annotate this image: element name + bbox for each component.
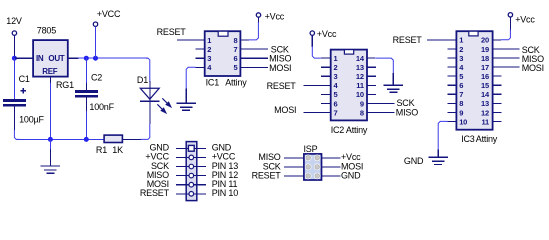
wire +VCC rail to LED anode bbox=[146, 58, 150, 82]
svg-text:6: 6 bbox=[334, 99, 338, 108]
svg-text:6: 6 bbox=[459, 81, 463, 90]
svg-text:Attiny: Attiny bbox=[476, 134, 498, 144]
svg-text:14: 14 bbox=[481, 90, 490, 99]
IC3 pin 7 stub bbox=[448, 93, 457, 95]
ISP right wire GND bbox=[322, 175, 341, 177]
wire C2 top bbox=[85, 58, 87, 83]
svg-text:2: 2 bbox=[459, 45, 463, 54]
ISP pin circle r1 bbox=[314, 155, 321, 162]
svg-text:MOSI: MOSI bbox=[269, 63, 291, 73]
ground symbol main bbox=[49, 149, 51, 166]
svg-text:RESET: RESET bbox=[140, 188, 170, 198]
ISP right wire +Vcc bbox=[322, 157, 341, 159]
svg-text:8: 8 bbox=[234, 36, 238, 45]
svg-text:1: 1 bbox=[207, 36, 211, 45]
ISP pin circle r2 bbox=[314, 164, 321, 171]
svg-text:RESET: RESET bbox=[252, 170, 282, 180]
svg-text:3: 3 bbox=[459, 54, 463, 63]
svg-text:MISO: MISO bbox=[396, 107, 418, 117]
svg-text:6: 6 bbox=[234, 54, 238, 63]
svg-text:8: 8 bbox=[360, 108, 364, 117]
node +Vcc terminal IC2 bbox=[310, 31, 314, 35]
IC3 pin 2 stub bbox=[448, 48, 457, 50]
wire 7805 OUT pin to +VCC rail bbox=[68, 57, 79, 59]
ground rail (C1 / REF / C2 / R1) bbox=[16, 138, 104, 140]
IC2 pin 4 stub bbox=[321, 84, 331, 86]
svg-text:ISP: ISP bbox=[304, 144, 318, 154]
IC3 pin 14 stub bbox=[493, 93, 502, 95]
IC2 pin 6 stub bbox=[321, 102, 331, 104]
svg-text:100nF: 100nF bbox=[89, 102, 114, 112]
wire 12V terminal to input junction bbox=[13, 36, 15, 59]
svg-text:+Vcc: +Vcc bbox=[265, 12, 285, 22]
svg-text:+Vcc: +Vcc bbox=[317, 29, 337, 39]
svg-text:7: 7 bbox=[334, 108, 338, 117]
svg-text:3: 3 bbox=[207, 54, 211, 63]
connector SV1 right wire PIN 13 bbox=[197, 166, 206, 168]
IC3 pin 17 wire MOSI bbox=[493, 66, 520, 68]
connector SV1 left wire MISO bbox=[176, 175, 186, 177]
connector SV1 pin 3 circle bbox=[189, 164, 194, 169]
connector SV1 through wire row 4 bbox=[186, 175, 197, 177]
svg-text:D1: D1 bbox=[137, 75, 148, 85]
connector SV1 right wire +VCC bbox=[197, 156, 206, 158]
svg-text:GND: GND bbox=[341, 170, 361, 180]
connector SV1 pin 1 square bbox=[188, 145, 194, 151]
connector SV1 strip body bbox=[186, 142, 197, 201]
svg-text:13: 13 bbox=[356, 63, 364, 72]
connector SV1 through wire row 1 bbox=[186, 147, 197, 149]
svg-text:GND: GND bbox=[404, 156, 424, 166]
ISP pin circle r2 bbox=[305, 164, 312, 171]
ISP left wire SCK bbox=[284, 166, 304, 168]
IC1 pin 2 stub bbox=[196, 48, 205, 50]
svg-text:9: 9 bbox=[360, 99, 364, 108]
IC1 pin 1 wire RESET bbox=[177, 39, 205, 41]
svg-text:RESET: RESET bbox=[267, 81, 297, 91]
IC2 pin 8 stub bbox=[367, 111, 376, 113]
junction C2 top node bbox=[84, 56, 89, 61]
LED D1 light arrows bbox=[157, 98, 171, 113]
IC1 pin 3 stub bbox=[196, 57, 205, 59]
svg-text:2: 2 bbox=[207, 45, 211, 54]
connector SV1 left wire RESET bbox=[176, 193, 186, 195]
svg-text:1: 1 bbox=[334, 54, 338, 63]
connector SV1 pin 4 circle bbox=[189, 173, 194, 178]
capacitor C2 plates bbox=[75, 90, 98, 93]
connector SV1 right wire PIN 12 bbox=[197, 175, 206, 177]
IC2 pin 10 stub bbox=[367, 93, 376, 95]
svg-text:+Vcc: +Vcc bbox=[515, 15, 535, 25]
junction ground rail at REF bbox=[48, 137, 53, 142]
wire 7805 REF pin down to ground rail bbox=[49, 77, 51, 84]
IC3 pin 11 stub bbox=[493, 120, 502, 122]
connector SV1 left wire SCK bbox=[176, 166, 186, 168]
ISP pin circle r1 bbox=[305, 155, 312, 162]
label C1 polarity + bbox=[20, 90, 26, 92]
regulator RG1 7805 box bbox=[33, 40, 68, 77]
svg-text:RG1: RG1 bbox=[56, 80, 74, 90]
svg-text:PIN 10: PIN 10 bbox=[212, 188, 239, 198]
connector SV1 through wire row 3 bbox=[186, 166, 197, 168]
svg-text:IC2 Attiny: IC2 Attiny bbox=[331, 125, 368, 135]
svg-text:12: 12 bbox=[481, 108, 489, 117]
IC3 pin 9 stub bbox=[448, 111, 457, 113]
ISP left wire MISO bbox=[284, 157, 304, 159]
IC1 pin 6 wire MISO bbox=[240, 57, 268, 59]
resistor R1 box bbox=[104, 135, 122, 142]
svg-text:12V: 12V bbox=[6, 16, 22, 26]
svg-text:11: 11 bbox=[481, 117, 489, 126]
IC2 pin 14 wire to ground bbox=[367, 57, 375, 59]
capacitor C1 plates bbox=[3, 99, 26, 102]
IC IC3 Attiny body bbox=[456, 31, 492, 130]
svg-text:RESET: RESET bbox=[157, 27, 187, 37]
connector SV1 right wire PIN 10 bbox=[197, 193, 206, 195]
svg-text:7: 7 bbox=[459, 90, 463, 99]
node +Vcc terminal IC3 bbox=[508, 13, 512, 17]
IC IC1 Attiny body bbox=[205, 31, 241, 76]
IC3 pin 3 stub bbox=[448, 57, 457, 59]
connector SV1 pin 6 circle bbox=[189, 192, 194, 197]
IC3 pin 1 wire RESET bbox=[427, 39, 456, 41]
IC2 pin 7 stub bbox=[321, 111, 331, 113]
IC2 pin 11 stub bbox=[367, 84, 376, 86]
node +Vcc terminal IC1 bbox=[256, 13, 260, 17]
wire +Vcc to IC2 pin 1 bbox=[311, 35, 313, 47]
IC3 pin 12 stub bbox=[493, 111, 502, 113]
IC3 pin 16 stub bbox=[493, 75, 502, 77]
svg-text:8: 8 bbox=[459, 99, 463, 108]
svg-text:C1: C1 bbox=[19, 74, 30, 84]
svg-text:IC3: IC3 bbox=[461, 134, 475, 144]
svg-text:11: 11 bbox=[356, 81, 364, 90]
connector SV1 pin 5 circle bbox=[189, 182, 194, 187]
node +VCC output terminal bbox=[93, 22, 97, 26]
connector SV1 through wire row 6 bbox=[186, 193, 197, 195]
svg-text:5: 5 bbox=[334, 90, 338, 99]
junction +VCC terminal node bbox=[93, 56, 98, 61]
svg-text:100µF: 100µF bbox=[19, 114, 44, 124]
ground symbol IC1 bbox=[185, 88, 187, 103]
IC2 pin 9 stub bbox=[367, 102, 376, 104]
wire REF junction to main ground bbox=[49, 139, 51, 150]
IC2 pin 2 stub bbox=[321, 66, 331, 68]
IC2 pin 5 stub bbox=[321, 93, 331, 95]
svg-text:R1: R1 bbox=[96, 145, 107, 155]
IC2 pin 7 wire MOSI bbox=[303, 111, 330, 113]
connector SV1 right wire PIN 11 bbox=[197, 184, 206, 186]
wire C2 bottom to ground rail bbox=[85, 98, 87, 113]
svg-text:IN: IN bbox=[36, 54, 44, 63]
IC2 pin 1 stub bbox=[321, 57, 331, 59]
svg-text:20: 20 bbox=[481, 36, 489, 45]
IC3 pin 6 stub bbox=[448, 84, 457, 86]
IC2 pin 9 wire SCK bbox=[367, 102, 394, 104]
IC3 pin 13 stub bbox=[493, 102, 502, 104]
svg-text:9: 9 bbox=[459, 108, 463, 117]
svg-text:1K: 1K bbox=[112, 145, 123, 155]
IC2 pin 4 wire RESET bbox=[303, 84, 330, 86]
ISP right wire MOSI bbox=[322, 166, 341, 168]
IC3 pin 5 stub bbox=[448, 75, 457, 77]
wire junction down to C1 bbox=[13, 58, 15, 99]
svg-text:REF: REF bbox=[42, 67, 58, 76]
ISP pin circle r3 bbox=[314, 173, 321, 180]
IC1 pin 5 wire MOSI bbox=[240, 66, 268, 68]
svg-text:1: 1 bbox=[459, 36, 463, 45]
junction ground rail at C2 bbox=[84, 137, 89, 142]
IC3 pin 4 stub bbox=[448, 66, 457, 68]
svg-text:10: 10 bbox=[459, 117, 467, 126]
IC3 pin 19 wire SCK bbox=[493, 48, 520, 50]
wire +Vcc to IC3 pin 20 bbox=[509, 17, 511, 31]
ground symbol IC2 bbox=[392, 73, 394, 85]
svg-text:+VCC: +VCC bbox=[97, 9, 121, 19]
wire +VCC terminal down to rail bbox=[95, 27, 97, 59]
IC3 pin 15 stub bbox=[493, 84, 502, 86]
svg-text:MOSI: MOSI bbox=[274, 105, 296, 115]
connector SV1 left wire +VCC bbox=[176, 156, 186, 158]
wire C1 bottom to ground rail bbox=[13, 107, 15, 131]
connector SV1 right wire GND bbox=[197, 147, 206, 149]
ground symbol IC3 bbox=[437, 150, 439, 158]
svg-text:5: 5 bbox=[234, 63, 238, 72]
IC3 pin 8 stub bbox=[448, 102, 457, 104]
wire IC1 pin 4 to ground bbox=[186, 67, 195, 89]
IC IC2 Attiny body bbox=[331, 50, 367, 121]
ISP left wire RESET bbox=[284, 175, 304, 177]
svg-text:IC1: IC1 bbox=[206, 78, 220, 88]
svg-text:OUT: OUT bbox=[48, 54, 64, 63]
svg-text:Attiny: Attiny bbox=[225, 78, 247, 88]
IC2 pin 8 wire MISO bbox=[367, 111, 394, 113]
connector SV1 through wire row 2 bbox=[186, 156, 197, 158]
svg-text:12: 12 bbox=[356, 72, 364, 81]
connector SV1 left wire MOSI bbox=[176, 184, 186, 186]
svg-text:14: 14 bbox=[356, 54, 365, 63]
svg-text:5: 5 bbox=[459, 72, 463, 81]
IC2 pin 12 stub bbox=[367, 75, 376, 77]
svg-text:MOSI: MOSI bbox=[522, 63, 544, 73]
IC1 pin 8 stub bbox=[240, 39, 249, 41]
svg-text:18: 18 bbox=[481, 54, 489, 63]
svg-text:17: 17 bbox=[481, 63, 489, 72]
wire +Vcc to IC1 pin 8 bbox=[257, 17, 259, 23]
connector ISP header body bbox=[304, 154, 322, 180]
svg-text:7: 7 bbox=[234, 45, 238, 54]
connector SV1 pin 2 circle bbox=[189, 155, 194, 160]
IC2 pin 3 stub bbox=[321, 75, 331, 77]
ISP pin circle r3 bbox=[305, 173, 312, 180]
IC1 pin 4 stub bbox=[196, 66, 205, 68]
svg-text:16: 16 bbox=[481, 72, 489, 81]
connector SV1 left wire GND bbox=[176, 147, 186, 149]
IC1 pin 7 wire SCK bbox=[240, 48, 268, 50]
svg-text:10: 10 bbox=[356, 90, 364, 99]
svg-text:2: 2 bbox=[334, 63, 338, 72]
IC3 pin 18 wire MISO bbox=[493, 57, 520, 59]
wire junction to 7805 IN pin bbox=[14, 57, 33, 59]
svg-text:19: 19 bbox=[481, 45, 489, 54]
svg-text:7805: 7805 bbox=[37, 26, 56, 36]
svg-text:15: 15 bbox=[481, 81, 489, 90]
wire LED cathode down to R1 bbox=[149, 101, 151, 124]
node 12V input terminal bbox=[12, 31, 16, 35]
connector SV1 through wire row 5 bbox=[186, 184, 197, 186]
svg-text:3: 3 bbox=[334, 72, 338, 81]
IC2 pin 13 stub bbox=[367, 66, 376, 68]
svg-text:C2: C2 bbox=[91, 73, 102, 83]
svg-text:13: 13 bbox=[481, 99, 489, 108]
junction input node bbox=[12, 56, 17, 61]
IC3 pin 10 wire to ground bbox=[448, 120, 457, 122]
svg-text:RESET: RESET bbox=[393, 35, 423, 45]
LED D1 symbol bbox=[140, 88, 159, 99]
